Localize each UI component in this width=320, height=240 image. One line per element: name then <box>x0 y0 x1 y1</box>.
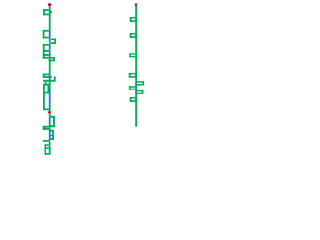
component U3 (box right of bus) <box>49 39 56 44</box>
component U20 (stub box on right bus) <box>130 97 137 102</box>
label N3 (blue net segment on bus) <box>135 19 137 21</box>
label N4 (blue net segment on bus) <box>135 35 137 37</box>
component U11 (narrow ladder box right of bus) <box>50 130 54 140</box>
wire W2g (blue sliver on bus) <box>49 58 51 61</box>
wire W5 (left bus, green short segment below junction) <box>49 109 51 116</box>
component U1 (left box on bus) <box>43 9 51 15</box>
component U8 (ladder left of bus) <box>43 82 49 111</box>
junction J1 (red dots on bus) <box>48 111 51 113</box>
wire W6b (green gap on bus) <box>49 142 51 145</box>
wire W3 (left bus, green mid segment) <box>49 60 51 75</box>
wire W2c (blue dot on bus) <box>49 40 51 42</box>
wire W6c (blue tail into bottom box) <box>49 146 51 153</box>
wire W2 (left bus, blue segment) <box>49 31 51 39</box>
wire W1 (left bus, green upper segment) <box>49 6 51 31</box>
power flag PWR1 (red plus, top of left bus) <box>48 3 51 6</box>
component U10 (small box left of bus) <box>43 126 50 130</box>
wire W2b (green gap on bus) <box>49 38 51 40</box>
wire W7 (right bus, green full) <box>135 6 137 127</box>
component U4 (ladder box left of bus) <box>43 44 55 59</box>
component U14 (stub box on right bus) <box>130 33 137 38</box>
wire K1 (bar crossing to bus, left) <box>43 140 50 142</box>
component U13 (stub box on right bus) <box>130 17 137 22</box>
component U19 (box right of bus) <box>137 90 143 94</box>
component U9 (box right of bus) <box>49 116 55 127</box>
component U16 (wide stub box) <box>129 73 137 78</box>
component U15 (small stub box) <box>129 53 135 57</box>
component U2 (open box left of bus) <box>43 30 49 39</box>
component U18 (box left of bus) <box>129 86 135 90</box>
label N1 (blue net label right of bus) <box>50 11 52 13</box>
component U17 (box right of bus) <box>137 81 144 85</box>
wire W2f (blue segment on bus) <box>49 52 51 57</box>
label N5 (blue net segment on bus) <box>135 74 137 76</box>
wire W2e (blue segment on bus) <box>49 44 51 50</box>
power flag PWR2 (red tip, top of right bus) <box>135 3 137 6</box>
label N6 (blue net segment on bus) <box>135 99 137 101</box>
component U12 (bottom box on left bus) <box>45 144 51 155</box>
wire W6 (left bus, blue lower segment) <box>49 117 51 140</box>
wire W4 (left bus, blue long segment) <box>49 74 51 109</box>
component U7 (box right of bus) <box>43 76 56 81</box>
wire W8 (blue dashes on right bus) <box>135 83 137 93</box>
component U6 (cluster left of bus) <box>43 74 52 78</box>
component U5 (box right of bus) <box>49 57 55 62</box>
